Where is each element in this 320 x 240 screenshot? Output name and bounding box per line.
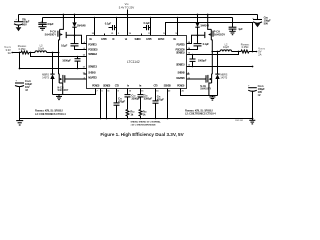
diode D1 1N4148 (bootstrap, left) (72, 14, 86, 36)
wire NGATE5: IC pin to Q4 gate (187, 78, 207, 80)
capacitor 3.3uF (38, 20, 54, 27)
wire VCC rail to VCC pin (116, 17, 118, 36)
stub SHDN top pin (141, 34, 143, 36)
wire VOUT3 row (12, 52, 21, 54)
node SW5 junctions (211, 51, 213, 53)
ground (arrow) below CIN1 (16, 27, 22, 31)
capacitor 1000pF (sense filter, left) (62, 56, 80, 70)
terminal VOUT3 (4, 45, 13, 55)
svg-text:140T3: 140T3 (220, 76, 227, 79)
wire PGATE3: IC pin to Q1 gate (66, 35, 86, 44)
svg-text:3300pF: 3300pF (144, 96, 153, 100)
resistor RSENSE3 0.05 ohm (18, 45, 29, 54)
wire inductor to SW3 (47, 52, 59, 54)
node output tap (COUT3/SENSE-) (19, 52, 21, 54)
svg-text:0.05Ω: 0.05Ω (19, 48, 26, 51)
svg-text:SHDN 3: SHDN 3 (88, 70, 96, 74)
ground (bottom left) (16, 119, 23, 126)
svg-text:Si9410DY: Si9410DY (200, 88, 211, 91)
wire VCC rail to VCC5 pin (177, 17, 179, 36)
transistor Q4 N-ch Si9410DY (right bottom) (200, 52, 212, 96)
svg-text:1142 F01: 1142 F01 (235, 120, 243, 122)
svg-text:Si9435DY: Si9435DY (214, 33, 226, 36)
capacitor CIN1 100uF 50V (14, 17, 30, 28)
wire PGND3 to power ground (53, 89, 96, 95)
svg-text:Si9410DY: Si9410DY (58, 89, 69, 92)
svg-text:470pF: 470pF (157, 98, 165, 102)
capacitor CB3 0.1uF (boost, left) (61, 36, 87, 50)
svg-text:0.05Ω: 0.05Ω (242, 46, 249, 49)
wire SENSE+5 line (187, 52, 239, 55)
IC top pin labels (89, 37, 176, 41)
wire VCC rail to CAP5 pin with 0.1uF cap (150, 17, 152, 36)
note: SHDN levels (131, 121, 162, 127)
IC bottom pin numbers (97, 91, 185, 93)
node SENSE+5 tap (238, 51, 240, 53)
stub SHDN3 pin (84, 73, 87, 75)
wire SGND3a to ground rail (100, 89, 102, 119)
svg-text:50V: 50V (264, 21, 269, 25)
svg-text:1N4148: 1N4148 (200, 23, 209, 27)
svg-text:PGATE 5: PGATE 5 (176, 42, 185, 46)
svg-text:0.1µF: 0.1µF (203, 42, 210, 46)
ground below 1uF (229, 31, 235, 34)
diode D3 MBRS140T3 (schottky, left) (42, 53, 55, 95)
ground (right power cluster) (209, 96, 215, 101)
VCC rail (second) (43, 18, 233, 28)
svg-text:3.3µF: 3.3µF (47, 22, 54, 26)
compensation network ITH5: capacitor CC5 + resistor RC5 (138, 89, 153, 119)
svg-text:L2: COILTRONICS CTX10-4: L2: COILTRONICS CTX10-4 (185, 112, 216, 116)
svg-text:SHDN3, SHDN5: 0V = NORMAL: SHDN3, SHDN5: 0V = NORMAL (131, 121, 162, 124)
node SW3 chain: P-ch MOSFET Q1 Si9430DY (45, 14, 67, 53)
ground (bottom right) (249, 119, 255, 124)
svg-text:SHDN 5: SHDN 5 (177, 70, 185, 74)
svg-text:SHDN: SHDN (135, 37, 141, 41)
capacitor COUT3 100uF 10V x2 (15, 79, 32, 118)
capacitor CT3 470pF (114, 89, 126, 119)
capacitor CT5 470pF (153, 89, 165, 119)
VIN rail (top) (19, 15, 258, 22)
svg-text:PGND5: PGND5 (177, 84, 185, 88)
capacitor 1uF (right end of VCC rail) (229, 27, 243, 31)
stub SHDN5 pin (187, 73, 190, 75)
wire SGND3 to ground rail (106, 89, 108, 119)
svg-text:1000pF: 1000pF (198, 59, 207, 63)
IC left pin labels (88, 42, 98, 79)
wire (232, 51, 241, 53)
inductor L2 10uH (220, 43, 232, 51)
node SW3 junctions (52, 52, 54, 54)
svg-text:SENSE+ 5: SENSE+ 5 (176, 50, 185, 54)
svg-text:2A: 2A (258, 53, 261, 57)
svg-text:1N4148: 1N4148 (77, 23, 86, 27)
svg-text:PGND3: PGND3 (92, 84, 100, 88)
svg-text:0.1µF: 0.1µF (61, 43, 68, 47)
wire EXTVCC pin to VOUT5 node (166, 23, 253, 52)
capacitor 1000pF (sense filter, right) (190, 54, 207, 68)
svg-text:1µF: 1µF (238, 27, 243, 31)
stub CAP3 top pin (104, 34, 106, 36)
IC U1 LTC1142 outline (87, 36, 187, 89)
wire VCC rail to VCC3 pin (94, 17, 96, 36)
IC left pin numbers (83, 41, 86, 80)
VIN source label (119, 2, 135, 36)
IC bottom pin labels (92, 84, 185, 88)
wire (29, 52, 35, 54)
svg-text:10µH: 10µH (38, 47, 44, 50)
note: RSENSE3 / L3 sourcing (35, 109, 66, 116)
svg-text:Figure 1. High Efficiency Dual: Figure 1. High Efficiency Dual 3.3V, 5V (100, 132, 184, 137)
IC top pin numbers (92, 33, 179, 35)
ground (arrow) below CIN2 (255, 24, 261, 28)
wire SW5 row (212, 51, 220, 53)
svg-text:0.1µF: 0.1µF (105, 22, 112, 26)
svg-text:3A: 3A (8, 51, 11, 55)
resistor RSENSE5 0.05 ohm (241, 43, 250, 53)
svg-text:SENSE− 3: SENSE− 3 (88, 65, 97, 69)
svg-text:0.1µF: 0.1µF (144, 21, 151, 25)
wire SGND5 to ground rail (167, 89, 169, 119)
svg-text:470pF: 470pF (118, 100, 126, 104)
svg-text:SENSE− 5: SENSE− 5 (176, 63, 185, 67)
svg-text:NGATE 3: NGATE 3 (88, 75, 97, 79)
capacitor 0.1uF (VCC bypass, left-mid) (105, 22, 117, 31)
wire SENSE+3 line (31, 53, 87, 57)
svg-text:SENSE+ 3: SENSE+ 3 (88, 52, 97, 56)
svg-text:>2V = SHUTDOWN MODE: >2V = SHUTDOWN MODE (131, 123, 157, 126)
capacitor CB5 0.1uF (boost, right) (187, 36, 210, 50)
svg-text:5.4V TO 25V: 5.4V TO 25V (119, 6, 135, 10)
node VOUT5 junction (252, 51, 254, 53)
svg-text:1000pF: 1000pF (62, 59, 71, 63)
wire SENSE-5 line (187, 66, 253, 68)
capacitor CIN2 100uF 50V (top right) (252, 15, 271, 25)
svg-text:SGND3: SGND3 (103, 84, 111, 88)
note: RSENSE5 / L2 sourcing (185, 108, 216, 115)
wire to VOUT5 terminal (249, 51, 257, 53)
svg-text:Si9430DY: Si9430DY (45, 33, 57, 36)
ground below 3.3uF (39, 27, 47, 30)
wire SENSE-3 line (19, 53, 87, 70)
compensation network ITH3: capacitor CC3 + resistor RC3 (125, 89, 141, 119)
svg-text:SGND5: SGND5 (164, 84, 172, 88)
ground rail (bottom) (20, 118, 254, 120)
wire PGATE5: IC pin to Q3 gate (187, 35, 205, 44)
svg-text:PGOOD 3: PGOOD 3 (88, 47, 98, 51)
capacitor 0.1uF (right-mid) (143, 21, 151, 30)
capacitor COUT5 100uF 10V x2 (248, 66, 265, 119)
inductor L3 10uH (35, 45, 47, 53)
wire NGATE3: IC pin to Q2 gate (65, 78, 87, 80)
ground (left power cluster) (56, 95, 62, 100)
svg-text:NGATE 5: NGATE 5 (176, 76, 185, 80)
IC right pin numbers (188, 42, 191, 80)
wire PGND5 to power ground (181, 89, 218, 96)
svg-text:L3: COILTRONICS CTX10-4: L3: COILTRONICS CTX10-4 (35, 112, 66, 116)
terminal VOUT5 (256, 47, 265, 57)
transistor Q3 P-ch Si9435DY (right top) (205, 14, 226, 52)
IC right pin labels (176, 42, 186, 80)
svg-text:140T3: 140T3 (42, 76, 49, 79)
diode D5 MBRS140T3 (schottky, right) (215, 52, 228, 96)
svg-text:50V: 50V (22, 23, 27, 27)
diode D2 1N4148 (bootstrap, right) (195, 14, 209, 36)
svg-text:10µH: 10µH (223, 46, 229, 49)
transistor Q2 N-ch Si9410DY (left bottom) (58, 53, 69, 95)
node SENSE+3 tap (30, 52, 32, 54)
svg-text:PGATE 3: PGATE 3 (88, 42, 97, 46)
svg-text:LTC1142: LTC1142 (127, 60, 140, 64)
